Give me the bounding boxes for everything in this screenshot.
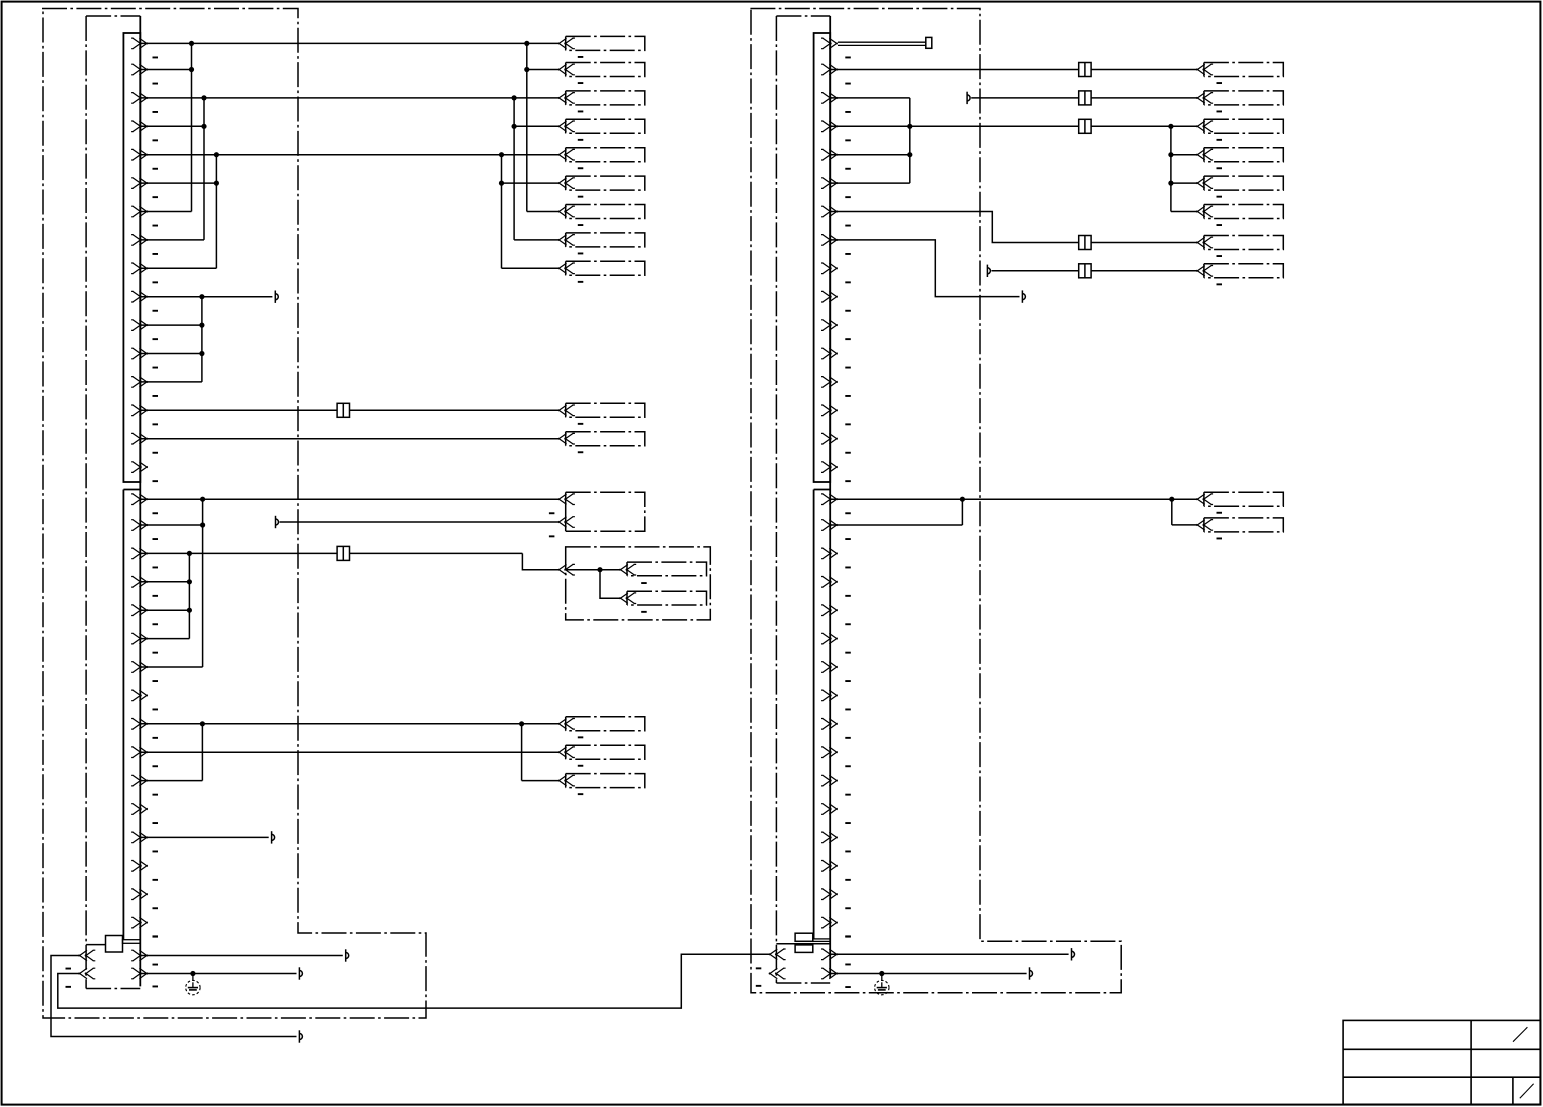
wire pin8 jog to off-page flag xyxy=(830,240,1019,297)
protective earth PE (right) xyxy=(875,974,889,995)
remote device group enclosure (dash-dot) xyxy=(566,547,711,620)
shielded pair link xyxy=(123,940,141,944)
wire net L6 (pins 19,20,21,22) through splice to remote group xyxy=(140,552,337,554)
X2 terminal pin 21 xyxy=(821,605,838,616)
splice F3 xyxy=(1079,63,1091,77)
load plug W22 (dash-dot box) xyxy=(1203,236,1205,250)
title block slash mark 1 xyxy=(1513,1027,1527,1042)
terminal strip X1 section 2 (left) xyxy=(122,490,124,940)
title block sub-cell line xyxy=(1512,1077,1514,1104)
junction xyxy=(201,124,206,129)
X1 terminal pin 20 xyxy=(131,577,148,588)
junction xyxy=(199,323,204,328)
load plug W14 (dash-dot box) xyxy=(565,745,567,759)
X1 terminal pin 30 xyxy=(131,861,148,872)
wire net L2 (pins 3,4,8) xyxy=(140,97,558,99)
wire strip outlet b to flag with earth tap xyxy=(140,973,296,975)
off-page connector flag xyxy=(346,949,349,961)
load plug W17 (dash-dot box) xyxy=(1203,91,1205,105)
X1 terminal pin 28 xyxy=(131,804,148,815)
junction xyxy=(199,294,204,299)
wire net L3 (pins 5,6,9) xyxy=(140,154,558,156)
load plug W20 (dash-dot box) xyxy=(1203,176,1205,190)
X2 terminal pin 4 xyxy=(821,121,838,132)
off-page connector flag xyxy=(299,967,302,979)
X2 terminal pin 16 xyxy=(821,462,838,473)
junction xyxy=(200,497,205,502)
panel pass-through pin a (right side) xyxy=(769,949,786,960)
X2 terminal pin 6 xyxy=(821,178,838,189)
junction xyxy=(499,181,504,186)
device plug W12 (double, dash-dot) xyxy=(565,492,567,531)
filter block Z2 upper xyxy=(795,933,813,941)
inner panel boundary (right, dash-dot) xyxy=(775,16,777,983)
X1 terminal pin 15 xyxy=(131,433,148,444)
load plug W1 (dash-dot box) xyxy=(565,36,567,50)
off-page connector flag xyxy=(1072,948,1075,960)
load plug W11 (dash-dot box) xyxy=(565,432,567,446)
X2 terminal pin 2 xyxy=(821,64,838,75)
strip outlet pin a (right) xyxy=(821,949,838,960)
off-page flag feeding row 3 xyxy=(967,92,970,104)
title block column line xyxy=(1470,1020,1472,1104)
X1 terminal pin 17 xyxy=(131,494,148,505)
X2 terminal pin 23 xyxy=(821,662,838,673)
remote device plug A (dash-dot) xyxy=(626,562,628,576)
X2 terminal pin 29 xyxy=(821,832,838,843)
X1 terminal pin 5 xyxy=(131,149,148,160)
junction xyxy=(187,551,192,556)
X2 terminal pin 7 xyxy=(821,206,838,217)
X2 terminal pin 15 xyxy=(821,433,838,444)
X1 terminal pin 25 xyxy=(131,719,148,730)
wire flag row3 through splice to plug xyxy=(971,97,1079,99)
junction xyxy=(499,152,504,157)
X1 terminal pin 16 xyxy=(131,462,148,473)
cabinet enclosure boundary (left, dash-dot) xyxy=(42,9,426,1019)
load plug W4 (dash-dot box) xyxy=(565,119,567,133)
filter block Z2 lower xyxy=(795,945,813,953)
junction xyxy=(187,579,192,584)
off-page connector flag xyxy=(1030,967,1033,979)
X1 terminal pin 22 xyxy=(131,633,148,644)
wire flag row8 through splice to plug 8 xyxy=(992,270,1079,272)
wire net L7 (pins 25,27) to plug W13 xyxy=(140,723,558,725)
X1 terminal pin 9 xyxy=(131,263,148,274)
X1 terminal pin 2 xyxy=(131,64,148,75)
terminal strip backbone line (left) xyxy=(139,16,141,986)
junction xyxy=(511,95,516,100)
load plug W15 (dash-dot box) xyxy=(565,774,567,788)
X2 terminal pin 22 xyxy=(821,633,838,644)
strip outlet pin a xyxy=(131,950,148,961)
strip outlet pin b xyxy=(131,968,148,979)
splice F7 xyxy=(1079,264,1091,278)
junction xyxy=(519,721,524,726)
X1 terminal pin 26 xyxy=(131,747,148,758)
X2 terminal pin 13 xyxy=(821,377,838,388)
X1 terminal pin 1 xyxy=(131,38,148,49)
wire pin7 jog through splice to plug 7 xyxy=(830,212,1079,243)
distribution bus V2 xyxy=(513,98,515,240)
junction xyxy=(1168,181,1173,186)
X1 terminal pin 24 xyxy=(131,690,148,701)
load plug W2 (dash-dot box) xyxy=(565,63,567,77)
wire inside remote group xyxy=(566,569,620,571)
X1 terminal pin 27 xyxy=(131,775,148,786)
wire net L4 (pins 10,11,12,13) to off-page flag xyxy=(140,296,272,298)
wire W-b inter-cabinet link to right cabinet xyxy=(58,954,769,1008)
terminal strip backbone line (right) xyxy=(829,16,831,978)
junction xyxy=(199,351,204,356)
X1 terminal pin 8 xyxy=(131,235,148,246)
off-page connector flag xyxy=(299,1030,302,1042)
wire pin14 through splice xyxy=(140,409,337,411)
X1 terminal pin 6 xyxy=(131,178,148,189)
wire pin29 to off-page flag xyxy=(140,836,268,838)
off-page flag feeding plug W12 pin2 xyxy=(276,516,279,528)
X1 terminal pin 10 xyxy=(131,291,148,302)
junction xyxy=(187,608,192,613)
junction xyxy=(190,971,195,976)
junction xyxy=(960,497,965,502)
junction xyxy=(189,41,194,46)
junction xyxy=(1168,152,1173,157)
junction xyxy=(907,152,912,157)
X1 terminal pin 29 xyxy=(131,832,148,843)
X1 terminal pin 31 xyxy=(131,889,148,900)
load plug W3 (dash-dot box) xyxy=(565,91,567,105)
load plug W10 (dash-dot box) xyxy=(565,403,567,417)
X2 terminal pin 14 xyxy=(821,405,838,416)
terminal strip X2 section 2 (right) xyxy=(813,490,815,940)
junction xyxy=(189,67,194,72)
X1 terminal pin 23 xyxy=(131,662,148,673)
load plug W13 (dash-dot box) xyxy=(565,717,567,731)
X2 terminal pin 30 xyxy=(821,861,838,872)
X2 terminal pin 3 xyxy=(821,93,838,104)
X1 terminal pin 19 xyxy=(131,548,148,559)
X2 terminal pin 10 xyxy=(821,291,838,302)
junction xyxy=(907,124,912,129)
remote device plug B (dash-dot) xyxy=(626,591,628,605)
X2 terminal pin 20 xyxy=(821,577,838,588)
junction xyxy=(524,41,529,46)
panel pass-through pin b (right side) xyxy=(769,968,786,979)
splice F4 xyxy=(1079,91,1091,105)
protective earth PE (left) xyxy=(186,974,200,995)
distribution bus V3 xyxy=(501,155,503,269)
junction xyxy=(1168,124,1173,129)
splice F1 xyxy=(337,403,349,417)
X1 terminal pin 11 xyxy=(131,320,148,331)
distribution bus V4 xyxy=(1170,126,1172,211)
X2 terminal pin 17 xyxy=(821,494,838,505)
X2 terminal pin 18 xyxy=(821,520,838,531)
wire pin26 to plug W14 xyxy=(140,751,558,753)
X2 terminal pin 8 xyxy=(821,235,838,246)
load plug W5 (dash-dot box) xyxy=(565,148,567,162)
X1 terminal pin 21 xyxy=(131,605,148,616)
X2 terminal pin 19 xyxy=(821,548,838,559)
strip outlet pin b (right) xyxy=(821,968,838,979)
panel pass-through pin a (left side) xyxy=(79,950,96,961)
junction xyxy=(597,567,602,572)
load plug W21 (dash-dot box) xyxy=(1203,205,1205,219)
junction xyxy=(879,971,884,976)
load plug W16 (dash-dot box) xyxy=(1203,63,1205,77)
wire strip outlet b to flag with earth tap (right) xyxy=(830,973,1026,975)
load plug W19 (dash-dot box) xyxy=(1203,148,1205,162)
junction xyxy=(200,721,205,726)
terminated pair from pin 1 (twisted pair with end cap) xyxy=(838,41,926,43)
junction xyxy=(201,95,206,100)
panel pass-through pin b (left side) xyxy=(79,968,96,979)
X2 terminal pin 11 xyxy=(821,320,838,331)
wire panel edge to strip (right bottom) xyxy=(776,943,830,945)
wire strip outlet a to flag xyxy=(140,955,342,957)
load plug W9 (dash-dot box) xyxy=(565,261,567,275)
title block slash mark 2 xyxy=(1520,1084,1534,1099)
X2 terminal pin 31 xyxy=(821,889,838,900)
wire pin15 to plug xyxy=(140,438,558,440)
wire net L1 (pins 1,2,7) xyxy=(140,42,558,44)
X2 terminal pin 12 xyxy=(821,348,838,359)
splice F5 xyxy=(1079,119,1091,133)
load plug W24 (dash-dot box) xyxy=(1203,492,1205,506)
off-page connector flag xyxy=(1022,290,1025,302)
splice F2 xyxy=(337,546,349,560)
X2 terminal pin 32 xyxy=(821,917,838,928)
junction xyxy=(511,124,516,129)
X1 terminal pin 7 xyxy=(131,206,148,217)
junction xyxy=(214,152,219,157)
pair termination cap xyxy=(926,37,932,48)
wire panel edge to filter xyxy=(86,944,105,946)
wire net L5 (pins 17,18,22) to device plug xyxy=(140,498,558,500)
X2 terminal pin 26 xyxy=(821,747,838,758)
shielded pair link (right) xyxy=(813,939,830,942)
wire net R1 (pins 3,4,5,6) through splice to plug group xyxy=(830,97,910,99)
off-page connector flag xyxy=(275,291,278,303)
off-page flag feeding row 8 xyxy=(987,265,990,277)
distribution to plug W15 xyxy=(521,724,523,781)
load plug W18 (dash-dot box) xyxy=(1203,119,1205,133)
inner panel boundary (left, dash-dot) xyxy=(85,16,87,989)
junction xyxy=(524,67,529,72)
terminal strip X1 section 1 (left) xyxy=(123,33,140,482)
X2 terminal pin 5 xyxy=(821,149,838,160)
title block row line 2 xyxy=(1343,1076,1540,1078)
X1 terminal pin 14 xyxy=(131,405,148,416)
load plug W23 (dash-dot box) xyxy=(1203,264,1205,278)
X2 terminal pin 25 xyxy=(821,719,838,730)
filter block Z1 xyxy=(106,936,123,953)
wire flag to W12 pin2 xyxy=(280,521,559,523)
load plug W25 (dash-dot box) xyxy=(1203,518,1205,532)
X1 terminal pin 4 xyxy=(131,121,148,132)
distribution bus V1 xyxy=(526,43,528,211)
load plug W7 (dash-dot box) xyxy=(565,205,567,219)
wire W-a from pass-through a to off-page flag (bottom) xyxy=(51,956,297,1037)
X1 terminal pin 3 xyxy=(131,93,148,104)
X2 terminal pin 28 xyxy=(821,804,838,815)
cabinet enclosure boundary (right, dash-dot) xyxy=(750,9,1121,993)
junction xyxy=(214,181,219,186)
splice F6 xyxy=(1079,236,1091,250)
load plug W8 (dash-dot box) xyxy=(565,233,567,247)
X2 terminal pin 24 xyxy=(821,690,838,701)
title block frame xyxy=(1343,1020,1540,1104)
X1 terminal pin 13 xyxy=(131,377,148,388)
X1 terminal pin 12 xyxy=(131,348,148,359)
load plug W6 (dash-dot box) xyxy=(565,176,567,190)
X1 terminal pin 18 xyxy=(131,520,148,531)
wire pin2 through splice to plug xyxy=(830,69,1079,71)
wire net R2 (pins 17,18) to plug pair xyxy=(830,498,1196,500)
X2 terminal pin 9 xyxy=(821,263,838,274)
X1 terminal pin 32 xyxy=(131,917,148,928)
junction xyxy=(200,522,205,527)
wire strip outlet a to flag (right) xyxy=(830,953,1068,955)
X2 terminal pin 27 xyxy=(821,775,838,786)
junction xyxy=(1169,497,1174,502)
title block row line 1 xyxy=(1343,1048,1540,1050)
X2 terminal pin 1 xyxy=(821,38,838,49)
off-page connector flag xyxy=(272,831,275,843)
terminal strip X2 section 1 (right) xyxy=(814,33,831,482)
